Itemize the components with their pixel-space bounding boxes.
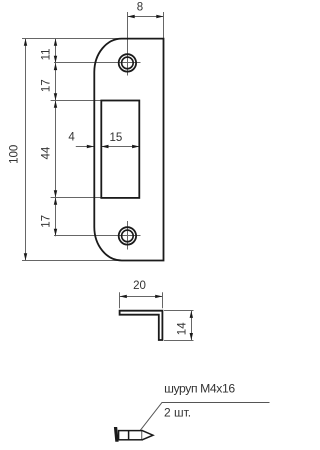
chain dimension line (11/17/44/17) [55, 39, 57, 237]
top screw hole outer circle [119, 54, 136, 71]
svg-text:17: 17 [40, 215, 52, 228]
svg-text:14: 14 [177, 322, 189, 335]
dimension 14 extension line top [164, 310, 194, 312]
dimension 8 arrow right [156, 15, 163, 18]
svg-text:4: 4 [68, 132, 75, 144]
svg-text:17: 17 [40, 79, 52, 92]
dimension 15 line [101, 146, 139, 148]
screw leader line [137, 403, 270, 435]
dimension 100 arrow top [24, 39, 27, 46]
centerline: top hole horizontal [54, 62, 141, 64]
extension line: plate top edge extended left [22, 38, 121, 40]
dimension 15 arrow left [101, 145, 108, 148]
bottom screw hole outer circle [119, 227, 136, 244]
dimension 15 arrow right [132, 145, 139, 148]
screw shank rectangle [119, 431, 143, 440]
latch cutout rectangle [101, 101, 139, 198]
dimension 8 extension line: plate right edge extended above [163, 12, 165, 39]
dimension 20 arrow right [155, 295, 162, 298]
chain arrow pair at top hole centerline [54, 56, 57, 63]
svg-text:44: 44 [40, 146, 52, 159]
svg-text:8: 8 [137, 1, 143, 13]
centerline: bottom hole horizontal [54, 235, 141, 237]
dimension 14 extension line bottom [164, 340, 194, 342]
dimension 100 line [25, 39, 27, 261]
svg-text:2 шт.: 2 шт. [164, 406, 191, 420]
strike plate outline (front view) [94, 39, 163, 261]
dimension 4 arrow [87, 145, 94, 148]
dimension 20 arrow left [120, 295, 127, 298]
dimension 14 line [191, 311, 193, 341]
dimension 100 arrow bottom [24, 253, 27, 260]
dimension 8 extension line: hole centerline vertical (top hole) [127, 12, 129, 76]
extension line: cutout top edge extended left [51, 100, 102, 102]
screw head/shank divider line [128, 431, 130, 440]
centerline: bottom hole vertical [127, 221, 129, 250]
dimension 14 arrow bottom [190, 333, 193, 340]
dimension 14 arrow top [190, 311, 193, 318]
dimension 20 extension line right [162, 292, 164, 308]
chain arrow pair at cutout bottom [54, 190, 57, 197]
bottom screw hole inner circle [122, 230, 134, 242]
chain arrow up at plate top [54, 39, 57, 46]
dimension 20 line [120, 296, 163, 298]
svg-text:15: 15 [110, 132, 123, 144]
angle bracket profile (side view) [120, 311, 163, 340]
screw tip cone [142, 431, 153, 440]
dimension 8 line [128, 16, 164, 18]
dimension 4 line [76, 146, 94, 148]
svg-text:20: 20 [133, 280, 146, 292]
dimension 8 arrow left [128, 15, 135, 18]
screw head (countersunk, side view) [114, 427, 119, 442]
svg-text:100: 100 [9, 145, 21, 164]
dimension 20 extension line left [119, 292, 121, 308]
extension line: cutout bottom edge extended left [51, 197, 102, 199]
chain arrow pair at cutout top [54, 93, 57, 100]
top screw hole inner circle [122, 57, 134, 69]
chain arrow down at bottom hole centerline [54, 229, 57, 236]
svg-text:шуруп М4х16: шуруп М4х16 [164, 381, 235, 395]
svg-text:11: 11 [40, 48, 52, 60]
extension line: plate bottom edge extended left [22, 260, 121, 262]
